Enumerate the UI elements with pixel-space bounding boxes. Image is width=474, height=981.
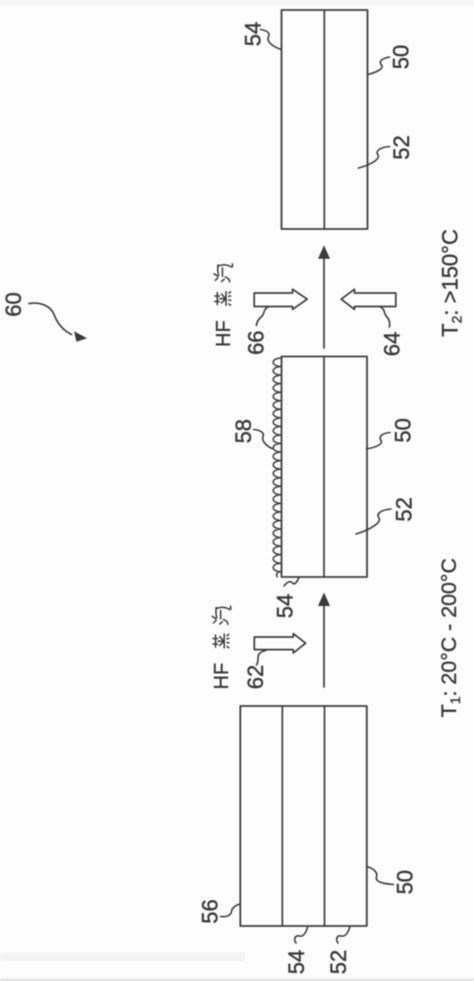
leader 60 (curved arrow) xyxy=(29,303,72,334)
etched surface 58 (scalloped edge) xyxy=(273,358,281,577)
svg-text:50: 50 xyxy=(388,45,413,69)
svg-text:HF: HF xyxy=(213,320,235,347)
leader 66 xyxy=(257,307,269,326)
substrate stack 2 (middle rectangle, 2 layers) xyxy=(282,357,368,578)
leader 54 (bottom) xyxy=(295,927,308,944)
hanzi qi (vapor) xyxy=(212,606,231,624)
svg-text:62: 62 xyxy=(243,665,268,689)
svg-text:50: 50 xyxy=(392,870,417,894)
HF vapor arrow 62 (hollow, pointing right) xyxy=(254,634,305,653)
wire layer divider 1b xyxy=(324,706,326,926)
wire layer divider 3 xyxy=(323,10,325,229)
substrate stack 1 (bottom rectangle, 3 layers) xyxy=(240,706,366,926)
leader 64 xyxy=(381,307,390,327)
svg-text:60: 60 xyxy=(1,292,26,316)
HF vapor arrow 66 (hollow, pointing right) xyxy=(254,289,307,309)
leader 62 xyxy=(257,650,267,665)
wire layer divider 1a xyxy=(281,706,283,926)
wire layer divider 2 xyxy=(323,357,325,578)
svg-text:50: 50 xyxy=(391,418,416,442)
hanzi zheng (steam) xyxy=(215,292,231,306)
HF vapor text 2 (lower) xyxy=(211,606,233,689)
HF vapor text 1 (upper) xyxy=(213,264,235,347)
svg-text:66: 66 xyxy=(244,330,269,354)
substrate stack 3 (top rectangle, 2 layers) xyxy=(282,10,368,229)
leader 50 (middle) xyxy=(367,433,391,450)
svg-text:58: 58 xyxy=(231,419,256,443)
leader 54 (middle) xyxy=(284,578,299,587)
leader 56 xyxy=(221,904,241,917)
svg-text:T1: 20°C - 200°C: T1: 20°C - 200°C xyxy=(437,558,463,717)
leader 52 (middle) xyxy=(356,509,391,534)
process arrow 1 (middle to top) xyxy=(323,257,325,348)
hanzi zheng (steam) xyxy=(213,634,229,648)
svg-text:HF: HF xyxy=(211,663,233,690)
svg-text:52: 52 xyxy=(326,950,351,974)
svg-text:64: 64 xyxy=(379,332,404,356)
svg-text:52: 52 xyxy=(389,135,414,159)
leader 54 (top) xyxy=(261,30,282,50)
svg-text:56: 56 xyxy=(198,899,223,923)
svg-text:54: 54 xyxy=(273,594,298,618)
leader 52 (top) xyxy=(359,147,390,169)
HF vapor arrow 64 (hollow, pointing left) xyxy=(341,289,396,309)
leader 52 (bottom) xyxy=(337,927,350,944)
arrowhead process arrow 1 xyxy=(318,245,330,258)
svg-text:54: 54 xyxy=(241,22,266,46)
leader 58 xyxy=(254,430,273,449)
svg-text:52: 52 xyxy=(392,497,417,521)
arrowhead leader 60 xyxy=(74,331,87,342)
leader 50 (bottom) xyxy=(367,867,394,885)
arrowhead process arrow 2 xyxy=(318,593,330,607)
process arrow 2 (bottom to middle) xyxy=(323,604,325,687)
leader 50 (top) xyxy=(368,57,390,75)
hanzi qi (vapor) xyxy=(214,264,233,282)
svg-text:54: 54 xyxy=(284,950,309,974)
